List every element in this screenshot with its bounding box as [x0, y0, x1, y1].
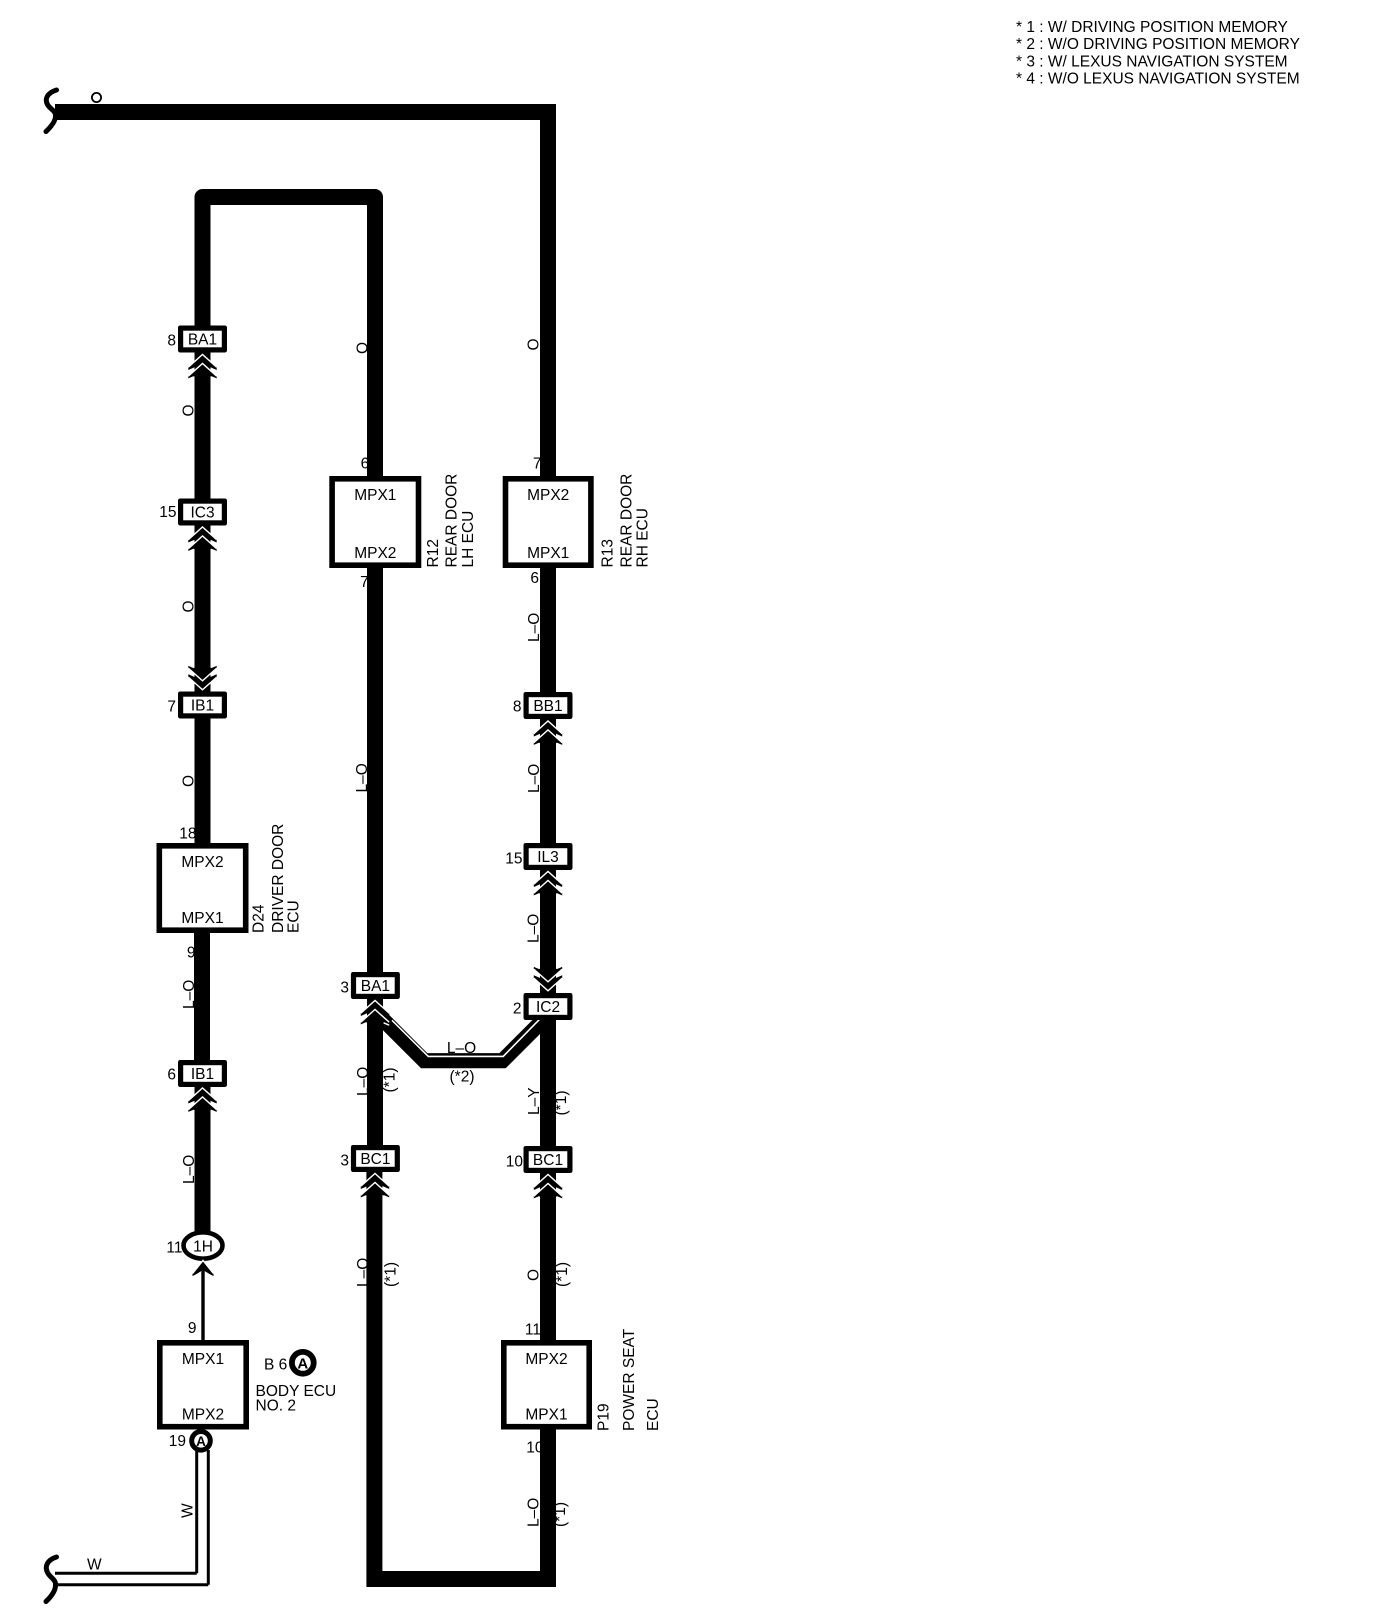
arrow up below BC1 right [534, 1174, 562, 1199]
wire white W hollow down from terminal A [55, 1450, 208, 1585]
svg-text:* 2 : W/O DRIVING POSITION MEM: * 2 : W/O DRIVING POSITION MEMORY [1016, 36, 1300, 53]
svg-text:O: O [526, 338, 543, 350]
svg-text:3: 3 [340, 1153, 349, 1170]
svg-text:BB1: BB1 [533, 698, 562, 715]
svg-text:2: 2 [513, 1001, 522, 1018]
svg-text:R13: R13 [600, 539, 617, 567]
wire right column IL3 to IC2 [540, 862, 556, 1000]
svg-text:POWER SEAT: POWER SEAT [621, 1328, 638, 1431]
svg-text:MPX1: MPX1 [525, 1407, 567, 1424]
svg-text:MPX2: MPX2 [527, 487, 569, 504]
wire main bus top horizontal and right vertical to R13 [55, 112, 548, 476]
svg-text:DRIVER DOOR: DRIVER DOOR [270, 824, 287, 933]
svg-text:IL3: IL3 [537, 849, 559, 866]
svg-text:6: 6 [167, 1067, 176, 1084]
svg-text:L–O: L–O [355, 1258, 372, 1287]
connector 6 IB1 lower [178, 1060, 227, 1087]
connector 8 BB1 [524, 692, 573, 719]
svg-text:A: A [297, 1355, 308, 1372]
svg-text:W: W [180, 1503, 197, 1518]
svg-text:L–O: L–O [181, 1155, 198, 1184]
svg-text:REAR DOOR: REAR DOOR [619, 474, 636, 568]
wire middle column BC1 down to bottom U and up right side to power seat ECU [374, 1170, 548, 1579]
svg-text:D24: D24 [251, 904, 268, 933]
svg-text:L–O: L–O [526, 613, 543, 642]
wire right column R13 to BB1 [540, 560, 556, 700]
svg-text:ECU: ECU [645, 1398, 662, 1431]
arrow up below IB1 lower [188, 1087, 216, 1112]
svg-text:IB1: IB1 [191, 698, 214, 715]
svg-text:IB1: IB1 [191, 1066, 214, 1083]
arrow up below BC1 middle [361, 1173, 389, 1198]
break symbol bottom left [46, 1557, 57, 1602]
wire right column BB1 to IL3 [540, 712, 556, 850]
svg-text:MPX1: MPX1 [182, 1351, 224, 1368]
wire left column IB1 to D24 [195, 710, 211, 845]
arrow up below IL3 [534, 871, 562, 896]
wire inverted-U from BA1 down-left leg and R12 leg [203, 197, 376, 476]
svg-text:10: 10 [526, 1440, 544, 1457]
svg-text:(*1): (*1) [383, 1262, 400, 1287]
arrow up below BB1 [534, 720, 562, 745]
svg-text:MPX2: MPX2 [354, 545, 396, 562]
svg-text:LH ECU: LH ECU [460, 511, 477, 568]
svg-text:O: O [181, 775, 198, 787]
connector 7 IB1 [178, 692, 227, 719]
svg-text:BC1: BC1 [533, 1152, 563, 1169]
svg-text:W: W [87, 1557, 102, 1574]
wire left column BA1 to IC3 [195, 340, 211, 510]
svg-text:R12: R12 [425, 539, 442, 567]
svg-text:REAR DOOR: REAR DOOR [444, 474, 461, 568]
svg-text:MPX2: MPX2 [182, 1407, 224, 1424]
bypass wire L-O (*2) from BA1 to IC2 [377, 1013, 547, 1061]
svg-text:IC3: IC3 [190, 505, 214, 522]
svg-text:9: 9 [187, 945, 196, 962]
svg-text:15: 15 [159, 504, 176, 521]
svg-text:O: O [181, 600, 198, 612]
legend option notes [1016, 19, 1300, 88]
arrow up single below 1H [193, 1260, 214, 1277]
svg-text:3: 3 [340, 980, 349, 997]
svg-text:L–O: L–O [526, 764, 543, 793]
svg-text:8: 8 [513, 699, 522, 716]
svg-text:BC1: BC1 [360, 1151, 390, 1168]
svg-text:7: 7 [360, 574, 369, 591]
svg-text:7: 7 [167, 699, 176, 716]
connector 2 IC2 [524, 993, 573, 1020]
svg-text:BA1: BA1 [361, 978, 390, 995]
svg-text:1H: 1H [193, 1239, 213, 1256]
arrow up below BA1 middle [361, 1000, 389, 1025]
svg-text:11: 11 [525, 1322, 541, 1339]
terminal circle A below body ECU [192, 1432, 211, 1451]
wire left column IB1 lower to junction 1H [195, 1080, 211, 1240]
connector 3 BC1 middle [351, 1145, 400, 1172]
connector 8 BA1 [178, 326, 227, 353]
connector 3 BA1 middle [351, 972, 400, 999]
wire left column IC3 to IB1 [195, 512, 211, 705]
svg-text:MPX1: MPX1 [527, 545, 569, 562]
svg-text:(*2): (*2) [450, 1069, 475, 1086]
svg-text:* 3 : W/ LEXUS NAVIGATION SYST: * 3 : W/ LEXUS NAVIGATION SYSTEM [1016, 53, 1288, 70]
wire middle column R12 to BA1 [367, 560, 383, 975]
svg-text:A: A [196, 1434, 206, 1449]
svg-text:L–Y: L–Y [526, 1087, 543, 1115]
svg-text:ECU: ECU [286, 900, 303, 933]
svg-text:11: 11 [166, 1240, 182, 1257]
svg-text:O: O [181, 404, 198, 416]
arrow up below BA1 [188, 354, 216, 379]
arrow up below IC3 [188, 526, 216, 551]
wire thin 1H to body ECU no.2 [201, 1250, 204, 1341]
svg-text:(*1): (*1) [382, 1068, 399, 1093]
svg-text:RH ECU: RH ECU [635, 508, 652, 567]
svg-text:L–O: L–O [526, 914, 543, 943]
svg-text:* 1 : W/ DRIVING POSITION MEMO: * 1 : W/ DRIVING POSITION MEMORY [1016, 19, 1288, 36]
svg-text:L–O: L–O [181, 980, 198, 1009]
connector 15 IL3 [524, 843, 573, 870]
wire right column BC1 to power seat ECU [540, 1165, 556, 1341]
svg-text:B 6: B 6 [264, 1356, 287, 1373]
svg-text:6: 6 [530, 570, 539, 587]
node junction circle on top bus [92, 93, 101, 102]
ECU R12 rear door LH [329, 476, 421, 568]
svg-text:L–O: L–O [354, 763, 371, 792]
svg-text:(*1): (*1) [552, 1502, 569, 1527]
connector 10 BC1 right [524, 1146, 573, 1173]
svg-text:L–O: L–O [526, 1498, 543, 1527]
ECU P19 power seat [501, 1340, 592, 1430]
ECU R13 rear door RH [503, 476, 594, 568]
svg-text:P19: P19 [596, 1403, 613, 1431]
wire middle column BA1 to BC1 [367, 996, 383, 1148]
ECU B6 body ECU no.2 [157, 1340, 249, 1430]
svg-text:7: 7 [533, 456, 542, 473]
svg-text:O: O [526, 1269, 543, 1281]
wire left column D24 to IB1 lower [194, 930, 210, 1073]
svg-text:MPX1: MPX1 [181, 910, 223, 927]
junction connector 1H oval [184, 1232, 223, 1258]
svg-text:MPX1: MPX1 [354, 487, 396, 504]
svg-text:15: 15 [505, 851, 522, 868]
svg-text:6: 6 [361, 456, 370, 473]
svg-text:18: 18 [179, 826, 196, 843]
svg-text:MPX2: MPX2 [181, 854, 223, 871]
svg-text:L–O: L–O [447, 1040, 476, 1057]
svg-text:19: 19 [169, 1433, 186, 1450]
ECU D24 driver door [157, 843, 249, 933]
svg-text:IC2: IC2 [536, 999, 560, 1016]
svg-text:MPX2: MPX2 [525, 1351, 567, 1368]
svg-text:10: 10 [506, 1154, 524, 1171]
svg-text:(*1): (*1) [554, 1262, 571, 1287]
svg-text:9: 9 [188, 1320, 197, 1337]
connector 15 IC3 [178, 499, 227, 526]
svg-text:8: 8 [167, 333, 176, 350]
arrow down above IB1 [188, 665, 216, 690]
svg-text:NO. 2: NO. 2 [256, 1397, 296, 1414]
svg-text:L–O: L–O [355, 1067, 372, 1096]
break symbol top left [46, 90, 57, 132]
svg-text:O: O [355, 342, 372, 354]
svg-text:BA1: BA1 [188, 332, 217, 349]
wire right column IC2 to BC1 [540, 1012, 556, 1150]
svg-text:* 4 : W/O LEXUS NAVIGATION SYS: * 4 : W/O LEXUS NAVIGATION SYSTEM [1016, 71, 1300, 88]
svg-text:(*1): (*1) [553, 1091, 570, 1116]
arrow down above IC2 [534, 966, 562, 991]
